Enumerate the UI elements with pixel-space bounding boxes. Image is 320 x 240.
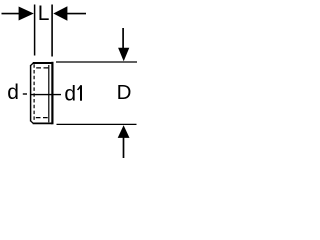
svg-text:L: L — [38, 2, 50, 25]
svg-text:d: d — [64, 82, 76, 105]
svg-text:D: D — [117, 81, 132, 104]
svg-text:d: d — [7, 81, 19, 104]
